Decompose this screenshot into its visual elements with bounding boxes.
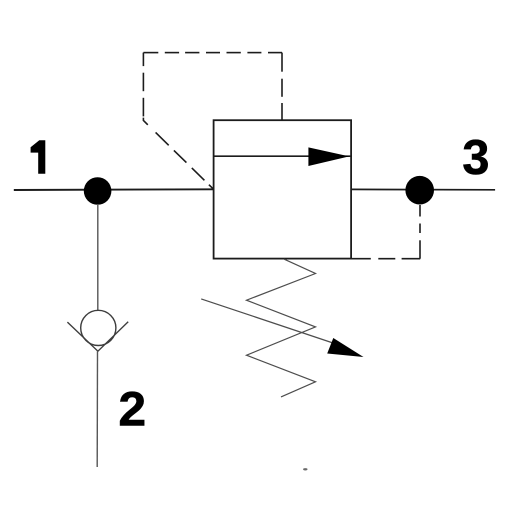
port label 1 — [31, 140, 46, 174]
pilot line (dashed): bottom horizontal to valve corner — [351, 258, 420, 260]
wire: check valve down to port 2 — [96, 351, 98, 467]
adjustment arrowhead — [327, 338, 363, 357]
check valve ball (circle) — [81, 310, 116, 345]
wire: port 1 inlet line — [14, 188, 214, 191]
check valve seat (V) — [67, 322, 128, 352]
node: junction at port 1 — [84, 177, 112, 205]
speck — [303, 468, 307, 470]
svg-text:3: 3 — [462, 131, 489, 185]
wire: junction 1 down to check valve — [97, 204, 99, 310]
pilot line (dashed): top horizontal leg — [143, 52, 282, 54]
adjustment arrow shaft — [201, 299, 336, 344]
flow path arrowhead — [308, 147, 349, 166]
node: junction at port 3 — [405, 176, 434, 205]
pilot line (dashed): left vertical leg — [142, 53, 144, 117]
pilot line (dashed): right vertical leg down to valve top — [281, 53, 283, 121]
pilot line (dashed): diagonal leg from junction 1 up to bend — [143, 118, 214, 190]
spring — [247, 259, 316, 397]
valve body — [214, 120, 352, 258]
svg-text:2: 2 — [118, 383, 146, 436]
flow path line inside valve — [214, 155, 351, 157]
wire: port 3 outlet line — [351, 188, 495, 190]
pilot line (dashed): from junction 3 down — [419, 205, 421, 259]
